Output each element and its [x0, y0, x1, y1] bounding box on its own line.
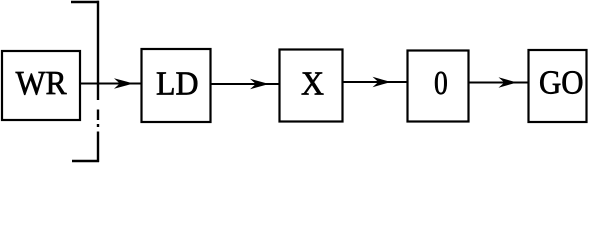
bracket bottom horizontal line [72, 160, 99, 163]
bracket vertical solid lower segment [97, 132, 99, 163]
wire X to 0 [343, 81, 408, 83]
bracket top horizontal line [71, 1, 99, 4]
svg-text:WR: WR [16, 65, 67, 102]
svg-text:0: 0 [434, 65, 448, 102]
arrowhead WR to LD [114, 78, 134, 88]
svg-text:GO: GO [539, 64, 584, 101]
wire LD to X [211, 83, 280, 85]
wire WR to LD [81, 83, 141, 85]
block GO [529, 50, 587, 122]
block WR [2, 51, 80, 120]
bracket vertical dash segment [97, 110, 99, 121]
svg-text:X: X [301, 65, 324, 102]
wire 0 to GO [469, 82, 529, 84]
arrowhead 0 to GO [499, 77, 518, 87]
arrowhead X to 0 [373, 77, 392, 87]
arrowhead LD to X [250, 79, 269, 89]
block X [280, 50, 343, 122]
svg-text:LD: LD [156, 66, 199, 103]
bracket vertical solid upper segment [97, 1, 99, 100]
block LD [142, 49, 211, 122]
bracket vertical dot segment [97, 124, 99, 127]
block 0 [408, 51, 469, 122]
